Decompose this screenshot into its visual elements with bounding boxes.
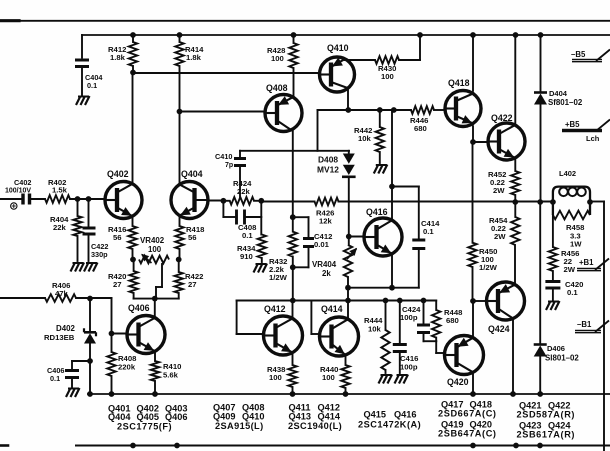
wire zobel down: [552, 215, 554, 247]
label R416: [108, 225, 126, 242]
wire Q422 emitter: [514, 158, 516, 171]
transistor Q422: [488, 123, 525, 160]
svg-text:Q406: Q406: [128, 303, 150, 313]
label R410: [163, 362, 181, 380]
node output-R452: [512, 199, 518, 205]
label Q406: [128, 303, 150, 313]
wire feedback line: [261, 201, 314, 203]
wire Q418 collector to rail: [472, 35, 474, 91]
node output-D404: [537, 199, 543, 205]
label R418: [186, 225, 205, 242]
transistor Q404: [171, 182, 208, 219]
label VR404: [312, 260, 337, 278]
svg-text:2SB647A(C): 2SB647A(C): [438, 429, 497, 439]
label D408: [317, 155, 339, 175]
node rail-R412: [130, 32, 136, 38]
node rail-R414: [177, 32, 183, 38]
svg-text:2W: 2W: [564, 265, 576, 274]
label Q418: [448, 78, 470, 88]
resistor R430: [375, 56, 399, 64]
label R430: [378, 64, 396, 81]
svg-text:Q418: Q418: [448, 78, 470, 88]
svg-text:0.1: 0.1: [567, 288, 578, 297]
wire C412 bottom: [293, 247, 309, 268]
inductor L402: [553, 187, 590, 215]
wire R412 to Q410 base: [133, 72, 320, 74]
label R442: [354, 126, 372, 143]
svg-text:VR402: VR402: [140, 236, 165, 245]
capacitor C424: [417, 301, 436, 342]
wire Q416 collector: [391, 110, 393, 221]
node R414 bottom: [177, 109, 183, 115]
transistor Q420: [445, 336, 484, 375]
resistor R456: [549, 247, 557, 271]
svg-text:680: 680: [446, 316, 459, 325]
svg-text:Q424: Q424: [488, 324, 510, 334]
label Q412: [264, 304, 286, 314]
node rail-R440: [343, 391, 349, 397]
wire Q416 base: [349, 236, 364, 238]
ground C416: [395, 375, 409, 384]
svg-text:Sf801–02: Sf801–02: [548, 98, 583, 107]
svg-text:1.8k: 1.8k: [186, 53, 202, 62]
capacitor C416: [393, 301, 407, 374]
svg-text:0.01: 0.01: [314, 240, 330, 249]
label Q416: [366, 207, 388, 217]
wire Q424 emitter up: [514, 245, 516, 286]
node Q424 base: [470, 298, 476, 304]
label Q410: [327, 43, 349, 53]
text transistor list col4: [358, 410, 421, 430]
svg-text:7p: 7p: [225, 162, 233, 169]
label C408: [238, 223, 257, 240]
wire Q412 base loop: [237, 301, 293, 335]
node output-L402 left: [550, 199, 556, 205]
svg-text:Q415: Q415: [364, 410, 386, 420]
label D402: [44, 324, 75, 342]
resistor R440: [341, 365, 349, 394]
ground C422: [84, 263, 98, 272]
svg-text:RD13EB: RD13EB: [44, 333, 75, 342]
resistor R426: [315, 198, 339, 206]
svg-text:Q409: Q409: [213, 412, 235, 422]
node rail-D406: [537, 391, 543, 397]
label C424: [400, 305, 421, 322]
text transistor list col1: [108, 404, 187, 432]
svg-text:Q412: Q412: [264, 304, 286, 314]
capacitor C402: [23, 194, 30, 205]
label C414: [421, 219, 440, 236]
wire R412 to Q402 collector: [132, 73, 134, 184]
svg-text:100: 100: [269, 373, 282, 382]
label R412: [108, 45, 126, 62]
wire R446 to Q418 base: [434, 109, 445, 111]
resistor R404: [73, 199, 81, 261]
transistor Q406: [127, 316, 165, 354]
svg-text:Q406: Q406: [165, 412, 187, 422]
svg-text:56: 56: [188, 233, 197, 242]
svg-text:2SC1775(F): 2SC1775(F): [117, 422, 172, 432]
svg-text:Q410: Q410: [242, 412, 264, 422]
svg-text:0.1: 0.1: [242, 231, 253, 240]
label R414: [185, 45, 204, 62]
svg-text:100: 100: [148, 245, 162, 254]
wire Q410 collector: [347, 89, 349, 111]
svg-text:Q410: Q410: [327, 43, 349, 53]
wire Q404 base: [208, 200, 223, 202]
capacitor C412: [303, 239, 314, 247]
label R440: [320, 365, 338, 382]
svg-text:22k: 22k: [237, 187, 251, 196]
wire Q414 collector: [347, 301, 349, 320]
node rail-D402: [87, 391, 93, 397]
label Q404: [181, 169, 203, 179]
ground C404: [76, 96, 90, 105]
text transistor list col5: [438, 400, 497, 439]
transistor Q410: [320, 57, 355, 92]
terminal input polarity: [11, 203, 17, 209]
wire Q422 collector to rail: [514, 35, 516, 126]
svg-text:Q414: Q414: [321, 304, 343, 314]
border top: [0, 19, 610, 22]
node output-L402 right: [587, 199, 593, 205]
wire output to right: [590, 201, 604, 203]
svg-text:D404: D404: [549, 89, 568, 98]
connector +B5: [562, 120, 610, 132]
wire D402 to rail: [89, 361, 91, 394]
transistor Q402: [105, 182, 142, 219]
svg-text:220k: 220k: [118, 363, 136, 372]
label R458: [566, 223, 585, 249]
ground C420: [546, 301, 560, 310]
wire R456 to C420: [552, 271, 554, 281]
resistor R410: [151, 361, 159, 394]
svg-text:Q416: Q416: [366, 207, 388, 217]
label Q408: [266, 83, 288, 93]
node tail: [152, 296, 158, 302]
wire C404 to ground: [81, 67, 83, 96]
resistor R406: [45, 294, 76, 302]
node rail-R438: [290, 391, 296, 397]
label R434: [237, 244, 256, 261]
label Q420: [447, 377, 469, 387]
svg-text:27: 27: [188, 280, 197, 289]
node drive-C424: [421, 298, 427, 304]
wire R448 to Q420 base: [436, 341, 444, 353]
wire R430 to rail: [399, 35, 420, 60]
svg-text:1.5k: 1.5k: [52, 186, 68, 195]
label Q414: [321, 304, 343, 314]
svg-text:Q408: Q408: [266, 83, 288, 93]
wire C414 top: [392, 187, 419, 240]
svg-text:VR404: VR404: [312, 260, 337, 269]
wire input lower: [0, 297, 45, 299]
wire C414 bottom: [392, 249, 419, 288]
label C420: [565, 280, 583, 297]
wire Q414 base jog: [311, 301, 319, 335]
node drive-R444: [383, 298, 389, 304]
label D406: [545, 344, 579, 363]
svg-text:0.1: 0.1: [50, 374, 60, 383]
svg-text:100p: 100p: [400, 363, 418, 372]
wire -B rail: [88, 393, 610, 395]
svg-text:0.1: 0.1: [87, 81, 97, 90]
svg-text:47k: 47k: [55, 289, 69, 298]
svg-text:680: 680: [414, 124, 427, 133]
node rail-Q418C: [470, 32, 476, 38]
svg-text:2k: 2k: [322, 269, 331, 278]
resistor R442: [376, 110, 384, 163]
svg-text:5.6k: 5.6k: [163, 371, 179, 380]
wire rail to C404: [81, 35, 83, 58]
ground R442: [374, 165, 388, 174]
wire drive line: [293, 300, 436, 302]
resistor R414: [175, 35, 183, 112]
svg-text:0.1: 0.1: [423, 227, 434, 236]
wire to C406: [72, 361, 90, 370]
svg-text:2SA915(L): 2SA915(L): [215, 421, 264, 431]
svg-text:100/10V: 100/10V: [5, 188, 31, 195]
svg-text:27: 27: [113, 280, 122, 289]
svg-text:C410: C410: [215, 152, 232, 161]
svg-text:–B1: –B1: [577, 320, 592, 329]
connector -B1: [575, 320, 609, 333]
connector -B5: [571, 50, 610, 62]
node rail-R408: [109, 391, 115, 397]
svg-text:D406: D406: [547, 344, 565, 353]
wire fb node down: [260, 201, 262, 235]
label R438: [267, 365, 286, 382]
node emitter line left: [345, 285, 351, 291]
wire output down right edge: [603, 202, 605, 451]
potentiometer VR402: [139, 254, 169, 264]
label Lch: [586, 134, 600, 143]
capacitor C408 loop: [223, 201, 261, 225]
label R406: [52, 281, 70, 298]
node VR402 right: [176, 257, 182, 263]
transistor Q414: [320, 317, 359, 356]
svg-text:Q402: Q402: [107, 169, 129, 179]
wire Q424 collector: [512, 319, 514, 394]
node C422 tap: [86, 196, 92, 202]
wire input: [0, 198, 22, 200]
ground R404: [71, 263, 85, 272]
svg-text:Q422: Q422: [491, 113, 513, 123]
wire tail to Q406 collector: [154, 299, 156, 317]
svg-text:100p: 100p: [400, 313, 418, 322]
diode D402 zener: [84, 328, 96, 361]
wire C406 to ground: [71, 378, 73, 388]
svg-text:MV12: MV12: [317, 165, 339, 175]
label Q402: [107, 169, 129, 179]
svg-text:Q414: Q414: [318, 412, 341, 422]
resistor R402: [45, 195, 70, 203]
capacitor C414: [412, 240, 425, 249]
wire emitter line: [348, 287, 392, 289]
wire C402 to R402: [30, 198, 45, 200]
wire Q420 emitter up: [472, 301, 474, 338]
svg-text:12k: 12k: [319, 217, 333, 226]
svg-text:D408: D408: [318, 155, 338, 165]
resistor R450: [468, 142, 476, 301]
svg-text:Lch: Lch: [586, 134, 600, 143]
resistor R434: [258, 235, 266, 263]
label C406: [47, 366, 64, 383]
border bottom rail (next section): [0, 443, 610, 449]
svg-text:1.8k: 1.8k: [110, 53, 126, 62]
transistor Q424: [487, 282, 525, 320]
node R412 bottom: [130, 70, 136, 76]
resistor R444: [381, 301, 389, 374]
node fb right: [258, 198, 264, 204]
svg-text:10k: 10k: [358, 134, 372, 143]
label R446: [410, 116, 428, 133]
wire to Q422 base: [473, 141, 488, 143]
svg-text:2W: 2W: [494, 232, 506, 241]
label R448: [444, 308, 463, 325]
label C404: [85, 73, 103, 90]
node Q416 base tap: [346, 234, 352, 240]
label R422: [185, 272, 203, 289]
wire D408 to VR404: [348, 177, 350, 245]
label C422: [91, 242, 108, 259]
resistor R412: [129, 35, 137, 72]
transistor Q416: [364, 218, 402, 256]
resistor R416: [128, 216, 136, 259]
node R442 top: [377, 107, 383, 113]
resistor R448: [432, 310, 440, 341]
svg-text:Q420: Q420: [447, 377, 469, 387]
label R404: [50, 215, 69, 232]
label VR402: [140, 236, 165, 254]
wire Q418 emitter: [472, 126, 474, 142]
wire R408 top: [111, 298, 113, 352]
wire R406 out: [76, 297, 112, 299]
label R426: [316, 209, 334, 226]
svg-text:Q405: Q405: [137, 412, 159, 422]
diode D404: [534, 35, 547, 202]
label Q424: [488, 324, 510, 334]
label R408: [118, 354, 137, 372]
capacitor C420: [545, 282, 560, 289]
label D404: [548, 89, 583, 107]
node rail-R428: [291, 32, 297, 38]
label Q422: [491, 113, 513, 123]
node drive-VR404: [345, 298, 351, 304]
resistor R458 parallel: [553, 211, 590, 220]
wire Q424 base: [473, 300, 487, 302]
svg-text:Q416: Q416: [394, 410, 416, 420]
label C402: [5, 178, 31, 195]
transistor Q412: [264, 316, 303, 355]
node fb left: [221, 198, 227, 204]
svg-text:2SD667A(C): 2SD667A(C): [438, 409, 497, 419]
node VR402 left: [130, 257, 136, 263]
wire jog to C410/D408: [240, 110, 349, 151]
label R432: [269, 257, 288, 282]
label C410: [215, 152, 233, 169]
wire R414 to Q404 collector: [179, 112, 181, 185]
wire VR402 wiper: [156, 264, 162, 299]
wire node line: [318, 109, 412, 111]
wire output line: [339, 201, 553, 203]
wire Q406 base: [112, 333, 128, 335]
wire Q408 collector: [292, 129, 294, 218]
capacitor C406: [65, 371, 79, 378]
svg-text:1/2W: 1/2W: [479, 263, 498, 272]
resistor R422: [175, 260, 183, 299]
wire Q420 collector: [472, 372, 474, 394]
wire VR404 bottom: [347, 277, 349, 301]
label R402: [48, 178, 68, 195]
node R432 bottom: [290, 264, 296, 270]
capacitor C404: [75, 60, 89, 67]
wire Q410 emitter: [345, 59, 375, 61]
transistor Q408: [265, 95, 302, 132]
wire C412 top: [293, 217, 309, 237]
svg-text:D402: D402: [56, 324, 75, 333]
node rail-R410: [152, 391, 158, 397]
wire R402 to Q402 base: [70, 198, 105, 200]
svg-text:+B5: +B5: [565, 120, 580, 129]
svg-text:100: 100: [381, 72, 394, 81]
node Q418E: [470, 139, 476, 145]
wire Q412 collector: [292, 301, 294, 319]
label R452: [488, 170, 506, 195]
node C412 top tap: [290, 214, 296, 220]
label L402: [559, 169, 576, 178]
node rail-Q422C: [513, 32, 519, 38]
node rail-Q420C: [470, 391, 476, 397]
node rail-R430: [417, 32, 423, 38]
label R456: [561, 249, 579, 274]
svg-text:Q404: Q404: [181, 169, 203, 179]
node rail-Q424C: [510, 391, 516, 397]
node D402 tap: [87, 296, 93, 302]
label R444: [364, 316, 383, 334]
label R454: [489, 216, 508, 241]
resistor R408: [107, 352, 115, 394]
resistor R432: [289, 217, 297, 300]
svg-text:Q404: Q404: [108, 412, 131, 422]
resistor R452: [511, 171, 519, 202]
diode D408 (dual varistor MV12): [342, 151, 356, 177]
svg-text:1/2W: 1/2W: [269, 273, 288, 282]
node Q416 chain top: [391, 107, 397, 113]
svg-text:22k: 22k: [53, 223, 67, 232]
svg-text:2SC1472K(A): 2SC1472K(A): [358, 420, 421, 430]
node R404 tap: [75, 196, 81, 202]
resistor R438: [288, 365, 296, 394]
svg-text:–B5: –B5: [571, 50, 586, 59]
svg-text:330p: 330p: [91, 250, 108, 259]
svg-text:C402: C402: [14, 178, 31, 187]
potentiometer VR404: [344, 245, 357, 277]
svg-text:10k: 10k: [368, 325, 382, 334]
wire drive to R448: [435, 301, 437, 311]
label R450: [479, 247, 498, 272]
svg-text:L402: L402: [559, 169, 576, 178]
label C416: [400, 354, 418, 372]
node Q416 emitter: [389, 285, 395, 291]
svg-text:1W: 1W: [570, 240, 582, 249]
transistor Q418: [445, 91, 481, 127]
svg-text:56: 56: [113, 233, 122, 242]
wire C420 to ground: [552, 288, 554, 300]
node C414 top tap: [389, 184, 395, 190]
label C412: [314, 232, 332, 249]
node Q406 base: [109, 331, 115, 337]
